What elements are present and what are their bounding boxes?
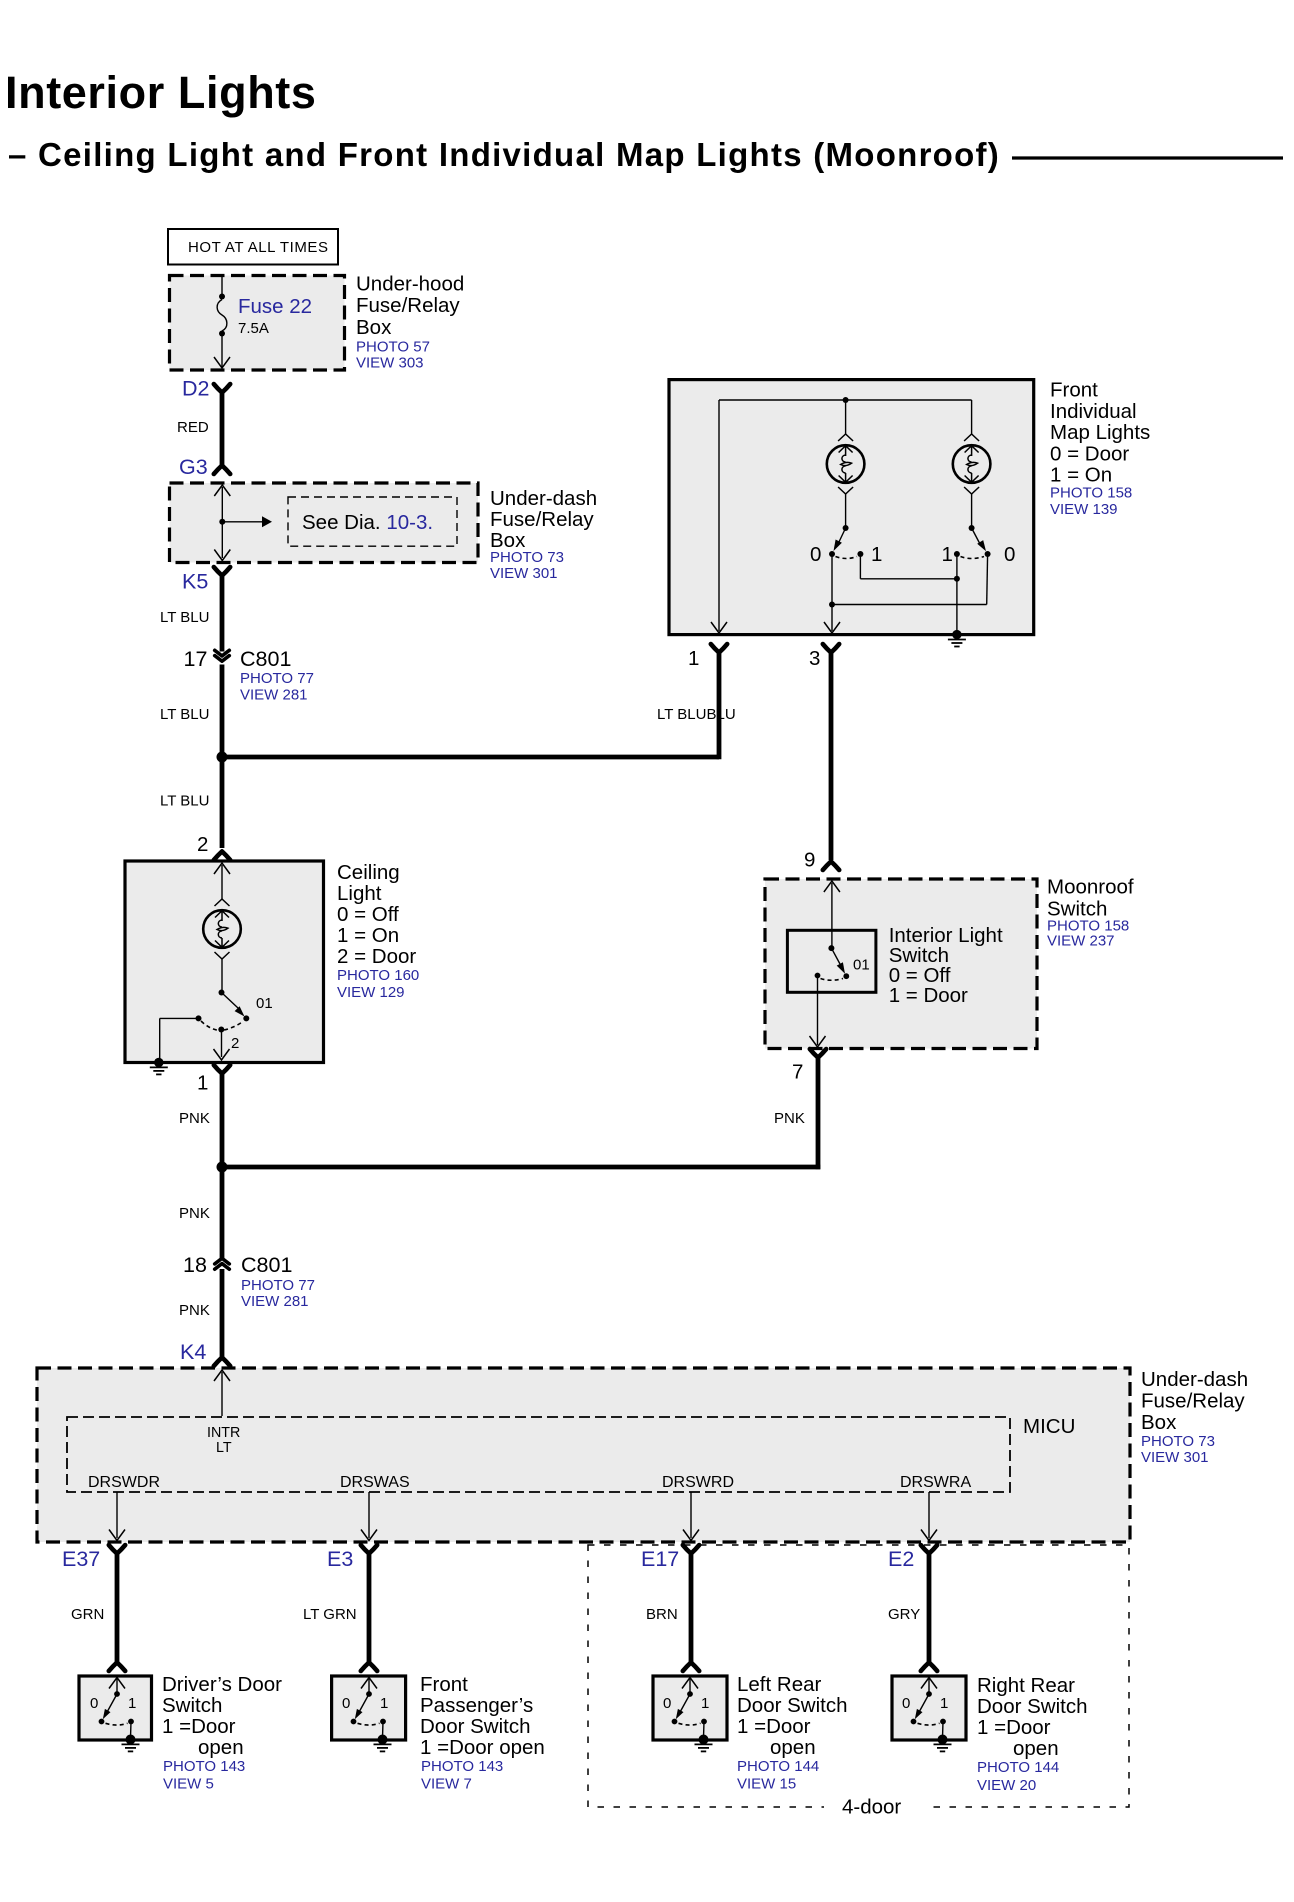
svg-text:PHOTO 73: PHOTO 73 <box>1141 1433 1215 1450</box>
svg-text:PHOTO 73: PHOTO 73 <box>490 549 564 566</box>
svg-text:LT BLU: LT BLU <box>160 609 209 626</box>
svg-text:VIEW 281: VIEW 281 <box>241 1293 309 1310</box>
svg-text:Ceiling: Ceiling <box>337 861 400 884</box>
svg-text:PHOTO 77: PHOTO 77 <box>241 1277 315 1294</box>
svg-text:VIEW 15: VIEW 15 <box>737 1776 796 1793</box>
svg-text:PHOTO 143: PHOTO 143 <box>163 1758 245 1775</box>
svg-text:DRSWRD: DRSWRD <box>662 1474 734 1491</box>
svg-text:– Ceiling Light and Front Indi: – Ceiling Light and Front Individual Map… <box>8 136 1000 173</box>
svg-text:E2: E2 <box>888 1547 914 1571</box>
svg-text:VIEW 7: VIEW 7 <box>421 1776 472 1793</box>
svg-text:VIEW 301: VIEW 301 <box>490 565 558 582</box>
svg-text:VIEW 20: VIEW 20 <box>977 1777 1036 1794</box>
svg-text:0 = Door: 0 = Door <box>1050 442 1129 465</box>
svg-text:01: 01 <box>256 995 273 1012</box>
svg-text:18: 18 <box>183 1253 207 1277</box>
svg-text:1 =Door: 1 =Door <box>977 1716 1051 1739</box>
svg-text:Fuse/Relay: Fuse/Relay <box>356 294 460 317</box>
svg-text:Front: Front <box>1050 379 1098 402</box>
svg-text:See Dia. 10-3.: See Dia. 10-3. <box>302 511 433 534</box>
svg-text:GRN: GRN <box>71 1606 104 1623</box>
svg-text:LT BLUBLU: LT BLUBLU <box>657 706 736 723</box>
svg-text:01: 01 <box>853 957 870 974</box>
svg-text:DRSWRA: DRSWRA <box>900 1474 971 1491</box>
svg-text:open: open <box>1013 1737 1059 1760</box>
svg-text:Map Lights: Map Lights <box>1050 421 1150 444</box>
svg-text:DRSWDR: DRSWDR <box>88 1474 160 1491</box>
svg-text:LT BLU: LT BLU <box>160 793 209 810</box>
svg-text:Moonroof: Moonroof <box>1047 876 1134 899</box>
svg-text:K4: K4 <box>180 1340 206 1364</box>
svg-text:C801: C801 <box>241 1253 292 1277</box>
svg-text:0 = Off: 0 = Off <box>337 903 399 926</box>
svg-text:open: open <box>770 1736 816 1759</box>
svg-text:VIEW 129: VIEW 129 <box>337 984 405 1001</box>
svg-text:4-door: 4-door <box>842 1796 901 1819</box>
svg-text:K5: K5 <box>182 570 208 594</box>
svg-text:Front: Front <box>420 1673 468 1696</box>
svg-text:MICU: MICU <box>1023 1415 1075 1438</box>
svg-text:1 = On: 1 = On <box>1050 464 1112 487</box>
svg-text:1: 1 <box>871 543 882 566</box>
svg-text:2 = Door: 2 = Door <box>337 945 416 968</box>
svg-text:E17: E17 <box>641 1547 679 1571</box>
svg-text:1: 1 <box>942 543 953 566</box>
svg-text:1: 1 <box>197 1072 208 1095</box>
svg-text:Light: Light <box>337 882 382 905</box>
svg-text:1 =Door: 1 =Door <box>162 1715 236 1738</box>
svg-text:VIEW 303: VIEW 303 <box>356 355 424 372</box>
svg-text:open: open <box>198 1736 244 1759</box>
svg-text:Door Switch: Door Switch <box>420 1715 531 1738</box>
svg-text:1 =Door: 1 =Door <box>737 1715 811 1738</box>
svg-text:3: 3 <box>809 647 820 670</box>
svg-text:VIEW 139: VIEW 139 <box>1050 501 1118 518</box>
svg-text:BRN: BRN <box>646 1606 678 1623</box>
svg-text:INTR: INTR <box>207 1425 240 1441</box>
svg-text:LT GRN: LT GRN <box>303 1606 357 1623</box>
svg-text:HOT AT ALL TIMES: HOT AT ALL TIMES <box>188 239 329 256</box>
svg-text:Passenger’s: Passenger’s <box>420 1694 533 1717</box>
svg-text:PHOTO 160: PHOTO 160 <box>337 967 419 984</box>
svg-text:Door Switch: Door Switch <box>737 1694 848 1717</box>
svg-text:PHOTO 158: PHOTO 158 <box>1050 485 1132 502</box>
svg-text:G3: G3 <box>179 455 208 479</box>
svg-text:LT BLU: LT BLU <box>160 706 209 723</box>
svg-text:1: 1 <box>688 647 699 670</box>
svg-text:1 = Door: 1 = Door <box>889 984 968 1007</box>
svg-text:Driver’s Door: Driver’s Door <box>162 1673 282 1696</box>
svg-text:Fuse/Relay: Fuse/Relay <box>490 508 594 531</box>
svg-text:0: 0 <box>1004 543 1015 566</box>
svg-text:7.5A: 7.5A <box>238 320 269 337</box>
svg-text:VIEW 5: VIEW 5 <box>163 1776 214 1793</box>
svg-text:GRY: GRY <box>888 1606 920 1623</box>
svg-text:PNK: PNK <box>179 1110 210 1127</box>
svg-text:2: 2 <box>231 1035 239 1052</box>
svg-text:Under-hood: Under-hood <box>356 273 464 296</box>
svg-text:Box: Box <box>356 316 392 339</box>
svg-text:PHOTO 57: PHOTO 57 <box>356 339 430 356</box>
svg-text:PNK: PNK <box>179 1205 210 1222</box>
svg-text:Left Rear: Left Rear <box>737 1673 821 1696</box>
svg-text:9: 9 <box>804 849 815 872</box>
svg-text:PHOTO 77: PHOTO 77 <box>240 670 314 687</box>
svg-text:E37: E37 <box>62 1547 100 1571</box>
svg-text:0: 0 <box>810 543 821 566</box>
svg-text:VIEW 237: VIEW 237 <box>1047 933 1115 950</box>
svg-text:RED: RED <box>177 419 209 436</box>
svg-text:Fuse/Relay: Fuse/Relay <box>1141 1390 1245 1413</box>
svg-text:VIEW 281: VIEW 281 <box>240 687 308 704</box>
svg-text:LT: LT <box>216 1440 232 1456</box>
svg-text:Individual: Individual <box>1050 400 1137 423</box>
svg-text:Under-dash: Under-dash <box>490 487 597 510</box>
svg-text:D2: D2 <box>182 377 209 401</box>
svg-text:2: 2 <box>197 833 208 856</box>
svg-text:Under-dash: Under-dash <box>1141 1368 1248 1391</box>
svg-text:Switch: Switch <box>162 1694 222 1717</box>
svg-text:7: 7 <box>792 1061 803 1084</box>
svg-text:PNK: PNK <box>774 1110 805 1127</box>
svg-text:PHOTO 143: PHOTO 143 <box>421 1758 503 1775</box>
svg-text:Right Rear: Right Rear <box>977 1674 1075 1697</box>
svg-text:Door Switch: Door Switch <box>977 1695 1088 1718</box>
svg-text:PHOTO 144: PHOTO 144 <box>977 1759 1059 1776</box>
svg-text:1 =Door open: 1 =Door open <box>420 1736 545 1759</box>
svg-text:VIEW 301: VIEW 301 <box>1141 1449 1209 1466</box>
svg-text:17: 17 <box>184 647 208 671</box>
svg-text:PHOTO 144: PHOTO 144 <box>737 1758 819 1775</box>
svg-text:C801: C801 <box>240 647 291 671</box>
svg-text:PNK: PNK <box>179 1302 210 1319</box>
svg-text:Fuse 22: Fuse 22 <box>238 295 312 318</box>
svg-text:Interior Lights: Interior Lights <box>5 67 317 118</box>
svg-text:DRSWAS: DRSWAS <box>340 1474 410 1491</box>
svg-text:Box: Box <box>1141 1411 1177 1434</box>
svg-text:E3: E3 <box>327 1547 353 1571</box>
svg-text:1 = On: 1 = On <box>337 924 399 947</box>
